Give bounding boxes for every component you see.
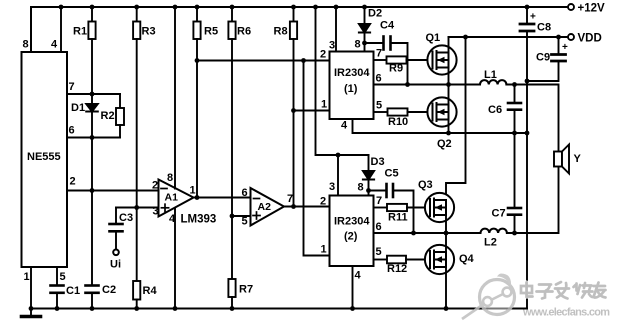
NE555 U1 [22,52,68,267]
svg-text:C3: C3 [119,212,133,224]
svg-text:A2: A2 [258,201,272,213]
svg-text:5: 5 [376,246,382,258]
svg-text:7: 7 [69,81,75,93]
wire A1 pin3 [116,207,159,209]
svg-text:1: 1 [321,99,327,111]
capacitor C4 bootstrap [365,37,408,85]
capacitor C2 [86,286,99,309]
capacitor C7 [508,133,521,233]
svg-text:8: 8 [358,182,364,194]
IR2304 U3 (2) [330,196,374,267]
wire IR2304-2 pin3 stub [337,155,339,196]
svg-text:C8: C8 [537,22,551,34]
wire L1 out to speaker top [506,85,558,152]
node COM junctions [446,131,529,136]
svg-text:VDD: VDD [578,33,602,45]
node L1 C6 junction [512,82,517,87]
node D3 feed junction [336,153,341,158]
svg-text:Q1: Q1 [426,32,441,44]
svg-text:L2: L2 [484,237,497,249]
svg-text:2: 2 [320,196,326,208]
node IR2304-1 pin8 [362,41,367,46]
node pin7 junction [90,92,95,97]
resistor R12 [374,256,431,264]
node pin6 junction [90,135,95,140]
diode D1 [86,94,98,138]
wire IR2304-1 pin2 [197,60,330,62]
wire ground rail [31,308,527,310]
svg-text:2: 2 [320,49,326,61]
inductor L1 [480,80,506,84]
resistor R1 [88,7,95,94]
capacitor C3 [110,208,123,250]
svg-text:C2: C2 [102,284,116,296]
op-amp A2 [251,188,285,226]
wire Q2 drain to switch node [448,85,450,105]
wire NE555 pin4 to rail [60,7,62,52]
transistor Q2 [427,97,456,126]
node R6 R7 tap [230,214,235,219]
svg-text:6: 6 [376,221,382,233]
inductor L2 [481,229,507,233]
svg-text:8: 8 [167,172,173,184]
svg-text:4: 4 [169,213,176,225]
node ground junctions [29,306,449,311]
svg-text:L1: L1 [484,69,497,81]
svg-text:6: 6 [242,187,248,199]
wire IR2304-2 pin4 to ground [352,266,354,309]
svg-text:5: 5 [242,216,248,228]
terminal +12V [568,4,574,10]
wire Q4 drain to switch node [445,233,447,252]
diode D3 [363,155,374,196]
svg-text:R6: R6 [237,26,251,38]
wire NE555 pin5 [56,267,58,285]
svg-text:4: 4 [355,270,362,282]
capacitor C6 [508,85,521,134]
svg-text:Y: Y [574,153,582,165]
wire A1 pin8 to rail [174,7,176,189]
svg-text:R8: R8 [274,26,288,38]
svg-text:1: 1 [321,244,327,256]
svg-text:7: 7 [287,193,293,205]
node R8 to pin1 [291,108,296,113]
svg-text:NE555: NE555 [27,151,61,163]
resistor R6 [228,7,235,216]
wire +12V top rail [31,7,571,52]
svg-text:Q3: Q3 [418,179,433,191]
speaker Y [554,145,569,174]
resistor R3 [133,7,140,208]
svg-text:6: 6 [69,125,75,137]
wire IR2304-1 pin3 to rail [335,7,337,52]
wire speaker bottom to L2 [507,167,559,234]
wire NE555 pin6 [67,137,120,139]
svg-text:3: 3 [329,40,335,52]
wire IR2304-1 pin1 [294,110,330,112]
wire IR2304-1 pin4 COM [353,119,528,133]
capacitor C5 bootstrap [369,184,414,233]
svg-text:Q4: Q4 [459,253,475,265]
wire IR2304-1 pin6 switch node [374,84,481,86]
wire A1 pin4 to ground [174,208,176,309]
wire NE555 pin2 to A1 [67,190,159,192]
svg-text:R7: R7 [239,284,253,296]
node C5 return [411,231,416,236]
resistor R5 [193,7,200,198]
wire IR2304-2 pin6 switch node [374,232,481,234]
node rail junctions [59,5,530,10]
svg-text:A1: A1 [165,192,179,204]
watermark elecfans logo [462,274,515,320]
op-amp A1 [159,180,194,217]
svg-text:C6: C6 [488,104,502,116]
watermark url [522,307,612,320]
svg-text:3: 3 [329,181,335,193]
svg-text:5: 5 [60,271,66,283]
svg-text:IR2304: IR2304 [334,67,370,79]
svg-text:7: 7 [376,48,382,60]
IR2304 U2 (1) [330,52,374,120]
svg-text:4: 4 [51,39,58,51]
wire Q2 source to COM [448,120,450,134]
node A2 output junction [291,204,296,209]
svg-text:6: 6 [376,73,382,85]
wire A2 output to IR2304-2 pin2 [284,206,330,208]
wire NE555 pin7 [67,93,120,95]
svg-text:IR2304: IR2304 [334,216,370,228]
wire Q1 source to switch node [448,68,450,85]
svg-text:7: 7 [376,195,382,207]
svg-text:C4: C4 [380,20,395,32]
svg-text:www.elecfans.com: www.elecfans.com [522,307,610,319]
svg-text:5: 5 [376,100,382,112]
svg-text:R12: R12 [387,263,407,275]
svg-text:Ui: Ui [110,259,121,271]
transistor Q4 [425,245,454,274]
wire VDD line [449,36,572,38]
node Q1 source junction [446,82,451,87]
node VDD drop junction [463,35,468,40]
node R3 R4 divider tap [134,205,139,210]
svg-text:1: 1 [24,271,30,283]
resistor R7 [228,216,235,309]
resistor R9 [374,56,433,63]
wire A1 out to IR2304-2 pin1 [304,61,330,256]
terminal Ui [113,250,119,256]
svg-text:8: 8 [355,39,361,51]
node R5 to IR2304-1 pin2 [195,58,200,63]
svg-text:(1): (1) [344,83,358,95]
node C8 gnd junctions [525,79,530,84]
svg-text:3: 3 [153,206,159,218]
node IR2304-2 pin8 [366,188,371,193]
resistor R2 [116,94,124,138]
svg-text:R2: R2 [101,110,115,122]
wire timing column to C2 [91,138,93,286]
svg-text:R4: R4 [143,285,158,297]
resistor R8 [290,7,297,207]
svg-text:2: 2 [152,180,158,192]
svg-text:(2): (2) [344,231,358,243]
wire NE555 pin8 stub [30,7,32,52]
node pin2 column junction [301,58,306,63]
svg-text:C5: C5 [385,168,399,180]
wire Q3 source to switch node [445,215,447,233]
resistor R11 [374,204,431,211]
svg-text:D2: D2 [368,8,382,20]
ground [22,309,41,317]
transistor Q3 [425,193,454,222]
wire NE555 pin1 to ground [30,267,32,309]
svg-text:C9: C9 [536,52,550,64]
capacitor C9 [527,37,566,81]
diode D2 [359,7,370,52]
svg-text:R1: R1 [73,26,87,38]
resistor R4 [133,208,140,309]
transistor Q1 [427,45,456,74]
wire VDD drop to IR2304-2 pin3 [316,7,369,155]
node L2 C7 junction [512,231,517,236]
resistor R10 [374,108,433,115]
svg-text:D1: D1 [71,102,85,114]
wire A2 pin5 [232,215,251,217]
svg-text:R5: R5 [204,26,218,38]
svg-text:4: 4 [341,120,348,132]
svg-text:R9: R9 [389,63,403,75]
svg-text:1: 1 [190,185,196,197]
wire Q4 source to ground [445,267,447,309]
svg-text:R10: R10 [388,116,408,128]
svg-text:R3: R3 [142,26,156,38]
svg-text:+: + [530,12,536,23]
node C9 top junction [556,35,561,40]
node pin2 junction [90,188,95,193]
svg-text:C7: C7 [492,208,506,220]
wire VDD drop to Q3 drain [446,37,466,193]
node Q3 Q4 midpoint [444,231,449,236]
svg-text:C1: C1 [66,285,80,297]
svg-text:R11: R11 [388,212,408,224]
svg-text:+: + [562,42,568,53]
svg-text:2: 2 [70,176,76,188]
capacitor C1 [51,286,64,309]
watermark chinese text [521,282,606,299]
svg-text:Q2: Q2 [437,138,452,150]
svg-text:LM393: LM393 [181,214,217,226]
wire Q1 drain to VDD [448,37,450,53]
node A1 output junction [195,195,200,200]
capacitor C8 [520,7,534,309]
node C4 return [405,82,410,87]
svg-text:+12V: +12V [578,3,606,15]
svg-text:D3: D3 [371,156,385,168]
wire A1 output to A2 [194,197,251,199]
svg-text:8: 8 [23,39,29,51]
terminal VDD [568,34,574,40]
